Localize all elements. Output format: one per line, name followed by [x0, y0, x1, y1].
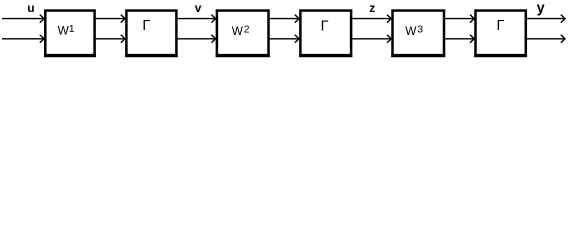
- wire Gamma2 to W3 top: [351, 15, 392, 23]
- label z: [369, 1, 375, 15]
- svg-text:W: W: [232, 24, 244, 38]
- block W1: [44, 11, 96, 56]
- wire W1 to Gamma1 bottom: [94, 35, 125, 43]
- block W3: [391, 11, 445, 56]
- wire Gamma1 to W2 top: [176, 15, 216, 23]
- label Gamma2: [321, 19, 329, 35]
- svg-text:z: z: [369, 1, 375, 15]
- block W2: [216, 11, 270, 56]
- svg-text:2: 2: [244, 25, 250, 36]
- label W2: [232, 24, 250, 38]
- wire W2 to Gamma2 top: [268, 15, 299, 23]
- wire input top: [2, 15, 44, 23]
- block Gamma2: [299, 11, 352, 56]
- svg-text:Γ: Γ: [142, 18, 150, 34]
- svg-text:v: v: [195, 1, 202, 15]
- wire Gamma1 to W2 bottom: [176, 35, 216, 43]
- svg-text:u: u: [27, 1, 34, 15]
- label W1: [58, 23, 75, 37]
- label v: [195, 1, 202, 15]
- label u: [27, 1, 34, 15]
- wire W2 to Gamma2 bottom: [268, 35, 299, 43]
- wire W1 to Gamma1 top: [94, 15, 125, 23]
- wire Gamma2 to W3 bottom: [351, 35, 392, 43]
- wire W3 to Gamma3 top: [444, 15, 475, 23]
- svg-text:W: W: [58, 23, 70, 37]
- label Gamma1: [142, 18, 150, 34]
- svg-text:W: W: [405, 24, 417, 38]
- wire output bottom: [526, 35, 566, 43]
- wire output top: [526, 15, 566, 23]
- svg-text:Γ: Γ: [321, 19, 329, 35]
- svg-text:1: 1: [69, 24, 75, 35]
- svg-text:3: 3: [417, 25, 423, 36]
- wire W3 to Gamma3 bottom: [444, 35, 475, 43]
- wire input bottom: [2, 35, 44, 43]
- label W3: [405, 24, 423, 38]
- block Gamma3: [474, 11, 527, 56]
- svg-text:y: y: [537, 0, 545, 16]
- label Gamma3: [497, 18, 505, 34]
- label y: [537, 0, 545, 16]
- block Gamma1: [125, 11, 177, 56]
- svg-text:Γ: Γ: [497, 18, 505, 34]
